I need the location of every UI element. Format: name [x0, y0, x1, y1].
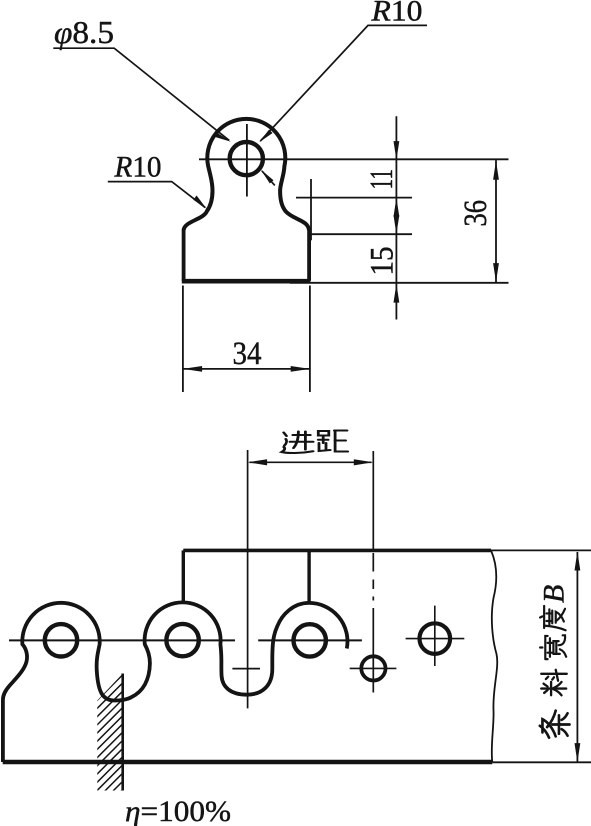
strip top edge	[183, 549, 491, 553]
strip bottom edge	[3, 760, 493, 764]
extension line bottom y=282.8	[290, 282, 509, 284]
extension 34 left	[182, 286, 184, 393]
arrow up	[575, 551, 581, 570]
extension 34 right	[309, 286, 311, 393]
strip width label (rotated)	[538, 585, 571, 738]
jinja dimension extension left (part center line)	[247, 450, 249, 708]
hole horizontal centerline / extension line	[199, 158, 509, 160]
strip top extension to right	[491, 549, 591, 551]
svg-text:34: 34	[233, 336, 262, 372]
arrow up at 283.6	[394, 284, 400, 303]
leader phi8.5	[53, 48, 229, 140]
center cross bar at next blank	[232, 668, 260, 670]
extension line y=197.6	[296, 197, 412, 199]
bump2 hole	[166, 624, 198, 656]
arrow down at 282.8	[493, 263, 499, 282]
small pierced hole	[361, 656, 385, 680]
extension line vertical x=311	[310, 179, 312, 240]
arrow left 34	[183, 366, 202, 372]
extension line y=234.2	[311, 233, 412, 235]
leader R10 top	[260, 25, 427, 141]
hatch right border / cut line	[121, 674, 124, 791]
pierce hole horizontal centerline	[406, 638, 465, 640]
svg-text:η=100%: η=100%	[125, 795, 231, 826]
bump1 hole	[45, 624, 77, 656]
svg-text:R10: R10	[370, 0, 422, 28]
pierce station hole	[420, 623, 451, 654]
dimension line 11/15 vertical	[395, 116, 397, 319]
jinja dimension extension right solid above strip	[372, 451, 374, 550]
jinja dimension line	[250, 461, 372, 463]
arrow down	[575, 743, 581, 762]
strip width dimension line	[576, 552, 578, 762]
scallop contour of blanked strip	[3, 602, 348, 762]
phi second arrow lower-right	[262, 171, 275, 186]
dimension line 36 vertical	[495, 160, 497, 283]
arrow up at 197.6	[394, 198, 400, 217]
hole circle phi 8.5	[230, 142, 263, 175]
svg-text:11: 11	[364, 169, 400, 190]
part bottom edge	[182, 279, 311, 284]
svg-text:36: 36	[458, 200, 494, 227]
pierce hole vertical centerline	[434, 606, 436, 666]
arrow down at 234.2	[394, 215, 400, 234]
strip centerline	[9, 639, 362, 641]
vertical cut segment right x=309	[307, 550, 310, 603]
arrow right 34	[291, 366, 310, 372]
svg-text:φ8.5: φ8.5	[54, 14, 114, 50]
part right edge	[307, 230, 311, 281]
arrow right	[354, 459, 373, 465]
hatch section lines	[0, 666, 246, 806]
dash-dot centerline below	[372, 553, 374, 693]
small hole horizontal centerline	[350, 667, 397, 669]
bump3 hole	[294, 624, 326, 656]
strip bottom extension to right	[492, 761, 591, 763]
vertical cut segment left x=183	[182, 550, 185, 602]
svg-text:R10: R10	[114, 150, 162, 183]
dimension line 34	[183, 368, 310, 370]
part left edge	[182, 230, 186, 281]
arrow up at 160.1	[493, 161, 499, 180]
break line wavy	[491, 550, 497, 762]
arrow down at 160	[394, 141, 400, 160]
text jinju (feed pitch)	[282, 432, 314, 454]
part outline: head circle with neck S-curves	[184, 119, 309, 230]
arrow left	[248, 459, 267, 465]
svg-text:15: 15	[365, 247, 401, 276]
svg-text:B: B	[538, 585, 571, 603]
hole vertical centerline	[246, 124, 248, 197]
leader R10 left	[108, 182, 205, 208]
